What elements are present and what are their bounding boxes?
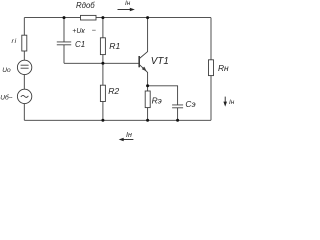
- svg-text:Iн: Iн: [229, 99, 235, 106]
- svg-text:C1: C1: [75, 40, 85, 49]
- svg-text:rі: rі: [12, 37, 18, 45]
- svg-text:Iн: Iн: [126, 132, 132, 139]
- svg-text:+Uк: +Uк: [72, 28, 85, 35]
- svg-text:VT1: VT1: [151, 56, 169, 67]
- svg-text:Rдоб: Rдоб: [76, 1, 95, 10]
- svg-text:Rэ: Rэ: [152, 95, 162, 105]
- svg-text:Cэ: Cэ: [185, 99, 195, 109]
- svg-text:Iн: Iн: [125, 0, 131, 7]
- svg-text:−: −: [92, 26, 97, 35]
- svg-text:R1: R1: [109, 41, 120, 51]
- svg-text:Uб~: Uб~: [0, 94, 12, 102]
- svg-text:Rн: Rн: [218, 63, 229, 73]
- svg-text:R2: R2: [108, 86, 119, 96]
- svg-text:Uо: Uо: [2, 67, 11, 74]
